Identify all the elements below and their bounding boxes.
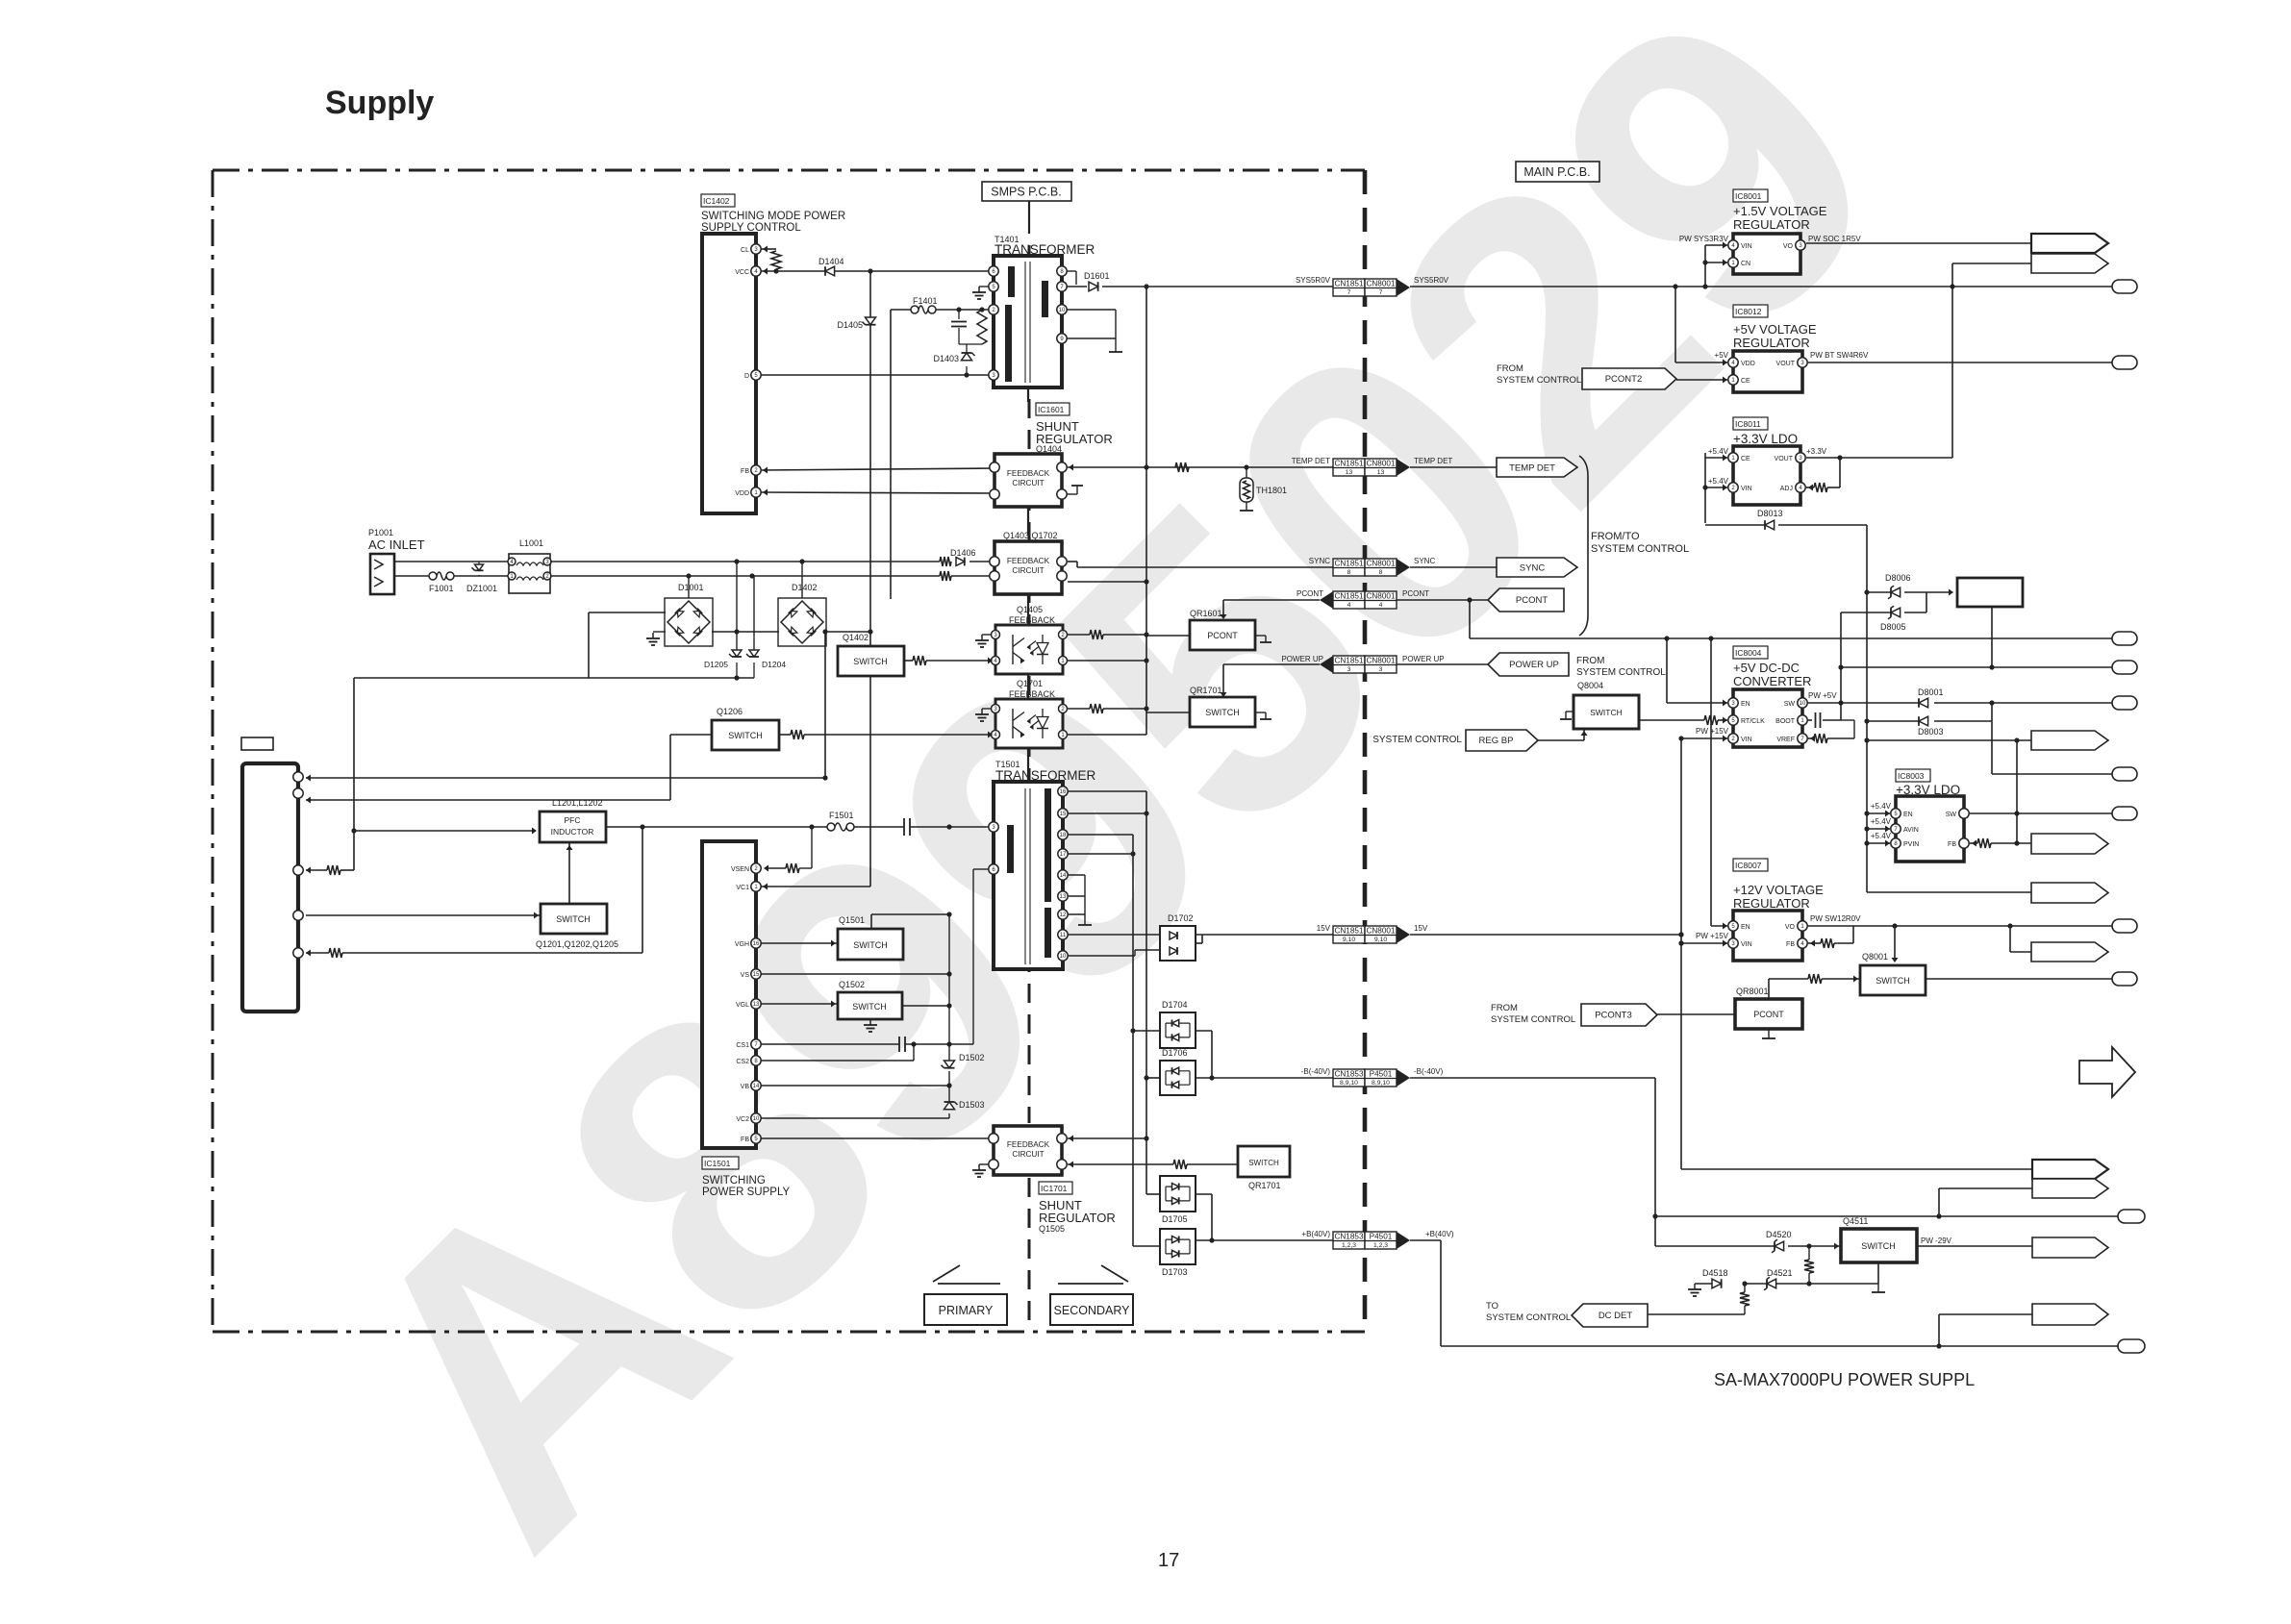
wire EN from pcont rail	[1710, 638, 1712, 926]
wire pin6 rail	[972, 869, 974, 1044]
svg-text:SA-MAX7000PU POWER SUPPL: SA-MAX7000PU POWER SUPPL	[1714, 1370, 1975, 1389]
svg-text:AC INLET: AC INLET	[368, 537, 425, 552]
svg-text:CN1851: CN1851	[1334, 927, 1363, 936]
svg-text:CN8001: CN8001	[1366, 927, 1395, 936]
ground below Q1502	[869, 1019, 871, 1025]
svg-text:CN1851: CN1851	[1334, 657, 1363, 665]
wire VGH	[761, 942, 838, 944]
pin FB 2 of IC1402	[751, 465, 761, 475]
pill connector SW	[2112, 807, 2137, 820]
svg-text:Supply: Supply	[325, 85, 434, 121]
svg-text:PW SOC 1R5V: PW SOC 1R5V	[1808, 235, 1861, 243]
svg-text:8,9,10: 8,9,10	[1372, 1080, 1390, 1087]
pin EN 5 of IC8007	[1728, 921, 1738, 931]
wire pin16	[1068, 790, 1146, 792]
svg-text:REG BP: REG BP	[1479, 736, 1514, 746]
svg-text:D8006: D8006	[1885, 573, 1911, 583]
svg-text:-B(-40V): -B(-40V)	[1414, 1067, 1444, 1076]
pentagon tag bottom right	[1939, 1313, 2032, 1315]
pin CE 1 of IC8012	[1728, 375, 1738, 385]
svg-text:POWER SUPPLY: POWER SUPPLY	[702, 1187, 790, 1198]
pin AVIN 7 of IC8003	[1891, 824, 1901, 834]
svg-text:7: 7	[1347, 289, 1351, 296]
svg-text:CN8001: CN8001	[1366, 657, 1395, 665]
svg-text:TEMP DET: TEMP DET	[1414, 457, 1452, 465]
switch QR1701 secondary	[1238, 1146, 1290, 1177]
wire +5.4V rail to IC8003	[1867, 812, 1890, 814]
IC IC1601 shunt regulator	[1036, 403, 1070, 415]
feedback circuit block IC1701	[994, 1126, 1062, 1175]
svg-text:CE: CE	[1741, 456, 1750, 462]
svg-text:FEEDBACK: FEEDBACK	[1007, 469, 1050, 478]
svg-text:SWITCH: SWITCH	[1876, 976, 1910, 986]
IC IC1402 switching mode power supply control	[701, 194, 735, 207]
wire left pin4 to switch	[306, 914, 541, 916]
resistor at CL pin	[761, 248, 776, 250]
svg-text:10: 10	[1059, 308, 1066, 313]
svg-text:MAIN P.C.B.: MAIN P.C.B.	[1523, 165, 1590, 179]
wire AC top	[394, 561, 509, 562]
bus secondary rectifier B	[1132, 835, 1134, 1246]
pin CL 3 of IC1402	[751, 244, 761, 254]
svg-text:VDD: VDD	[1741, 361, 1755, 367]
svg-text:D1405: D1405	[837, 320, 863, 330]
IC IC8003 +3.3V LDO	[1896, 769, 1930, 782]
wire Q4511 out	[1917, 1245, 2032, 1247]
svg-text:F1401: F1401	[913, 296, 938, 306]
zener rail right of IC1501	[948, 914, 950, 1062]
svg-text:SWITCHING MODE POWER: SWITCHING MODE POWER	[701, 211, 845, 222]
chevron pair connectors	[1681, 1168, 2032, 1170]
pin 2 of left connector	[293, 788, 303, 798]
pin 12 of T1501	[1058, 910, 1068, 919]
tag SYNC	[1497, 558, 1577, 577]
svg-text:VO: VO	[1785, 924, 1796, 931]
svg-text:FB: FB	[741, 468, 749, 475]
svg-text:14: 14	[1060, 873, 1067, 879]
ground at D1001	[653, 631, 666, 633]
svg-text:PFC: PFC	[565, 815, 581, 825]
resistor ADJ	[1806, 487, 1814, 488]
svg-text:FROM: FROM	[1497, 363, 1523, 374]
pin VOUT 3 of IC8012	[1798, 358, 1807, 367]
primary marker	[933, 1265, 960, 1282]
wire bridge out down rail	[824, 632, 826, 778]
wire FB	[761, 468, 994, 470]
svg-text:CL: CL	[741, 247, 749, 254]
pin 3 of T1501	[989, 822, 998, 832]
pin ADJ 4 of IC8011	[1796, 483, 1805, 492]
svg-text:9,10: 9,10	[1374, 937, 1387, 943]
block unlabeled top right	[1957, 578, 2023, 607]
svg-text:+B(40V): +B(40V)	[1301, 1230, 1330, 1238]
svg-text:CE: CE	[1741, 378, 1750, 385]
pin 2 of T1401	[989, 305, 998, 314]
svg-text:QR1601: QR1601	[1190, 609, 1222, 618]
svg-text:Q1402: Q1402	[843, 633, 869, 642]
node VCC junction	[868, 268, 872, 273]
svg-text:10: 10	[1060, 954, 1067, 960]
svg-text:D4521: D4521	[1767, 1268, 1793, 1278]
svg-text:12: 12	[1060, 912, 1067, 918]
resistor top AC line	[940, 557, 951, 566]
wire Q1402 down rail	[869, 676, 871, 887]
svg-text:RT/CLK: RT/CLK	[1741, 718, 1765, 725]
svg-text:Q1403,Q1702: Q1403,Q1702	[1003, 531, 1058, 540]
wire AC bottom	[394, 575, 429, 577]
svg-text:P4501: P4501	[1370, 1233, 1393, 1241]
svg-text:FB: FB	[741, 1137, 749, 1143]
svg-text:VREF: VREF	[1776, 737, 1795, 743]
svg-text:SYS5R0V: SYS5R0V	[1414, 276, 1449, 285]
svg-text:REGULATOR: REGULATOR	[1733, 336, 1810, 350]
wire pin18	[1068, 834, 1133, 836]
svg-text:Q1405: Q1405	[1017, 605, 1043, 614]
pin CE 1 of IC8011	[1728, 453, 1738, 462]
wire Q1403 lower out	[1068, 581, 1146, 583]
svg-text:D8003: D8003	[1918, 727, 1944, 737]
pin VIN 2 of IC8011	[1728, 483, 1738, 492]
resistor bottom AC line	[940, 571, 951, 581]
wire switch to pfc arrow	[568, 843, 570, 904]
wire Q1405 pin1	[1068, 660, 1146, 662]
svg-text:9,10: 9,10	[1343, 937, 1355, 943]
pin PVIN 8 of IC8003	[1891, 838, 1901, 848]
dash-dot border bottom	[213, 1331, 1365, 1334]
svg-text:PRIMARY: PRIMARY	[939, 1304, 994, 1317]
pentagon tag mid right	[1867, 739, 2031, 741]
wire riser to pfc line	[353, 678, 355, 870]
wire PCONT left	[1223, 599, 1320, 601]
wire POWER UP right	[1397, 663, 1488, 665]
svg-text:IC8004: IC8004	[1735, 648, 1762, 658]
pin VC1 1 of IC1501	[751, 882, 761, 891]
svg-text:CS2: CS2	[736, 1059, 749, 1065]
small rect label	[241, 737, 273, 750]
svg-text:P1001: P1001	[368, 528, 393, 537]
svg-text:PCONT: PCONT	[1516, 595, 1548, 606]
svg-text:PW -29V: PW -29V	[1921, 1237, 1952, 1245]
switch Q1201,Q1202,Q1205	[541, 904, 607, 934]
capacitor near F1401	[958, 310, 960, 319]
pin VGL 13 of IC1501	[751, 999, 761, 1009]
wire IC1701 out1	[1068, 1137, 1146, 1139]
pill connector row1	[2112, 632, 2137, 645]
dash-dot border top	[213, 169, 1365, 172]
pin VB 14 of IC1501	[751, 1081, 761, 1090]
ground at Q1405	[982, 634, 991, 636]
svg-text:REGULATOR: REGULATOR	[1733, 896, 1810, 911]
svg-text:VDD: VDD	[735, 490, 749, 497]
svg-text:1,2,3: 1,2,3	[1342, 1242, 1356, 1249]
svg-text:IC1701: IC1701	[1041, 1184, 1068, 1193]
svg-text:IC1402: IC1402	[703, 196, 730, 206]
wire CS1 capacitor	[761, 1043, 899, 1045]
wire bridge taps	[736, 562, 738, 650]
svg-text:F1501: F1501	[829, 811, 854, 820]
svg-text:EN: EN	[1741, 701, 1750, 708]
wire IC1701 out2 resistor	[1068, 1163, 1173, 1165]
svg-text:CN1851: CN1851	[1334, 592, 1363, 601]
svg-text:SYSTEM CONTROL: SYSTEM CONTROL	[1497, 375, 1581, 386]
wire to Q8001	[1894, 926, 1896, 962]
wire pin11 to D1702	[1068, 934, 1160, 936]
svg-text:8: 8	[1379, 569, 1383, 576]
svg-text:POWER UP: POWER UP	[1402, 655, 1445, 663]
svg-text:FROM/TO: FROM/TO	[1591, 531, 1640, 542]
pin 13 of T1501	[1058, 891, 1068, 901]
svg-text:+3.3V LDO: +3.3V LDO	[1733, 432, 1798, 446]
pin CN 1 of IC8001	[1728, 258, 1738, 267]
svg-text:CIRCUIT: CIRCUIT	[1012, 1150, 1044, 1159]
wire Q8001 out	[1926, 978, 2112, 980]
svg-text:1,2,3: 1,2,3	[1373, 1242, 1388, 1249]
svg-text:+1.5V VOLTAGE: +1.5V VOLTAGE	[1733, 204, 1827, 218]
svg-text:IC1501: IC1501	[704, 1159, 731, 1168]
wire pfc input tap	[351, 828, 356, 833]
svg-text:17: 17	[1060, 852, 1067, 858]
svg-text:3: 3	[1347, 666, 1351, 673]
ground at T1401 pin 5	[979, 286, 989, 287]
wire POWER UP left	[1223, 663, 1320, 665]
svg-text:CS1: CS1	[736, 1042, 749, 1049]
wire D pin to transformer	[761, 374, 994, 376]
svg-text:SW: SW	[1946, 812, 1957, 818]
svg-text:Q8001: Q8001	[1862, 952, 1888, 962]
feedback circuit block Q1404	[994, 454, 1062, 507]
wire pin17	[1068, 853, 1133, 855]
svg-text:CN1851: CN1851	[1334, 280, 1363, 288]
svg-text:VO: VO	[1783, 243, 1794, 250]
svg-text:+B(40V): +B(40V)	[1425, 1230, 1454, 1238]
svg-text:L1001: L1001	[519, 538, 543, 548]
pin 6 of T1501	[989, 864, 998, 874]
pin VCC 4 of IC1402	[751, 266, 761, 276]
svg-text:+5.4V: +5.4V	[1708, 447, 1729, 456]
pin CS2 8 of IC1501	[751, 1056, 761, 1065]
pill connector PW BT	[2112, 356, 2137, 369]
big arrow connector	[2079, 1047, 2135, 1097]
svg-text:TEMP DET: TEMP DET	[1509, 463, 1555, 474]
wire PCONT right	[1397, 599, 1488, 601]
svg-text:D1702: D1702	[1168, 913, 1194, 923]
svg-text:+12V VOLTAGE: +12V VOLTAGE	[1733, 883, 1824, 897]
wire left pin3 resistor	[306, 869, 327, 871]
resistor DC DET	[1740, 1292, 1750, 1306]
wire vertical pentagon rail	[2016, 740, 2018, 843]
svg-text:SWITCH: SWITCH	[853, 657, 888, 666]
ground below QR8001	[1768, 1029, 1770, 1038]
wire Q1403 to Q1405 leader	[1027, 594, 1029, 625]
svg-text:8,9,10: 8,9,10	[1340, 1080, 1358, 1087]
svg-text:+5V: +5V	[1715, 351, 1729, 360]
diode block D1703	[1160, 1229, 1196, 1264]
pill connector PW +5V	[2112, 696, 2137, 710]
svg-text:SECONDARY: SECONDARY	[1054, 1304, 1131, 1317]
wire VIN	[1681, 942, 1727, 944]
wire cap/res bottom	[959, 343, 982, 345]
wire Q1405 pin2 resistor	[1068, 634, 1090, 636]
pin 9 of T1401	[1057, 334, 1067, 343]
svg-text:+5.4V: +5.4V	[1871, 817, 1892, 826]
pentagon tag FB	[2031, 834, 2108, 854]
pin 1 of left connector	[293, 772, 303, 782]
dashed primary/secondary boundary	[1028, 245, 1031, 1123]
pill connector y1265	[2118, 1210, 2145, 1223]
wire left pin1	[306, 777, 825, 779]
svg-text:P4501: P4501	[1370, 1070, 1393, 1079]
svg-text:SYNC: SYNC	[1414, 557, 1435, 565]
svg-text:SWITCH: SWITCH	[1590, 708, 1623, 717]
svg-text:CN1851: CN1851	[1334, 560, 1363, 568]
svg-text:CN8001: CN8001	[1366, 560, 1395, 568]
svg-text:FROM: FROM	[1576, 656, 1604, 666]
wire Q1405 to Q1701 leader	[1027, 674, 1029, 699]
pin SW 10 of IC8004	[1798, 698, 1807, 708]
wire pill row y1265	[1655, 1215, 2118, 1217]
svg-text:CONVERTER: CONVERTER	[1733, 674, 1811, 688]
pin BOOT 1 of IC8004	[1798, 715, 1807, 725]
svg-text:PCONT: PCONT	[1297, 589, 1323, 598]
svg-text:CN8001: CN8001	[1366, 280, 1395, 288]
pin D 5 of IC1402	[751, 370, 761, 380]
pin 11 of T1501	[1058, 930, 1068, 939]
resistor FB IC8007	[1808, 942, 1821, 944]
wire CS2	[761, 1060, 914, 1062]
svg-text:PW +15V: PW +15V	[1696, 932, 1729, 940]
svg-text:VB: VB	[741, 1084, 750, 1090]
pin 10 of T1401	[1057, 305, 1067, 314]
svg-text:SWITCH: SWITCH	[556, 914, 591, 924]
svg-text:CIRCUIT: CIRCUIT	[1012, 566, 1044, 575]
svg-text:15: 15	[1060, 812, 1067, 817]
svg-text:SW: SW	[1784, 701, 1796, 708]
pill connector PW SW12R0V	[2112, 919, 2137, 933]
pill connector SYS5R0V	[2112, 280, 2137, 293]
wire VCC	[761, 270, 994, 272]
fuse F1001	[429, 572, 437, 580]
svg-text:TH1801: TH1801	[1256, 486, 1287, 495]
wire pin15	[1068, 812, 1146, 814]
svg-text:INDUCTOR: INDUCTOR	[551, 827, 594, 837]
svg-text:SYNC: SYNC	[1520, 563, 1546, 574]
wire VDD	[761, 492, 994, 493]
wire -B(-40V)	[1212, 1077, 1333, 1079]
svg-text:15V: 15V	[1414, 924, 1428, 933]
svg-text:F1001: F1001	[429, 584, 454, 593]
svg-text:PCONT: PCONT	[1207, 631, 1238, 640]
pin FB 4 of IC8007	[1798, 938, 1807, 948]
svg-text:REGULATOR: REGULATOR	[1039, 1211, 1116, 1225]
wire VS	[761, 973, 949, 975]
svg-text:VC2: VC2	[736, 1116, 749, 1123]
pin VIN 4 of IC8001	[1728, 240, 1738, 250]
wire pin10 to D1702	[1068, 955, 1135, 957]
wire bridge out right	[823, 631, 870, 633]
svg-text:D1204: D1204	[762, 660, 786, 669]
wire 15V out	[1196, 942, 1202, 944]
IC IC1501 switching power supply	[702, 841, 756, 1148]
pin VC2 10 of IC1501	[751, 1113, 761, 1123]
svg-text:VSEN: VSEN	[731, 866, 749, 873]
resistor Q1402 out	[904, 660, 913, 662]
svg-text:POWER UP: POWER UP	[1509, 660, 1559, 670]
svg-text:VIN: VIN	[1741, 243, 1752, 250]
wire bridge mid	[712, 631, 779, 633]
svg-text:+5.4V: +5.4V	[1708, 477, 1729, 486]
pill connector row2	[1841, 666, 2112, 668]
wire EN	[1666, 638, 1668, 703]
bus secondary rectifier A	[1145, 791, 1147, 1194]
svg-text:PCONT: PCONT	[1753, 1010, 1784, 1019]
svg-text:D1001: D1001	[678, 583, 704, 592]
svg-text:D1502: D1502	[959, 1053, 985, 1062]
svg-text:Q1701: Q1701	[1017, 679, 1043, 688]
svg-text:Q1206: Q1206	[717, 707, 743, 716]
wire pfc out	[606, 826, 827, 828]
dash-dot border left	[212, 170, 214, 1332]
svg-text:+5.4V: +5.4V	[1871, 832, 1892, 840]
tag POWER UP left	[1488, 653, 1569, 676]
svg-text:PW +5V: PW +5V	[1808, 691, 1837, 700]
svg-text:13: 13	[1377, 469, 1385, 476]
svg-text:D8001: D8001	[1918, 687, 1944, 697]
svg-text:Q4511: Q4511	[1843, 1216, 1868, 1226]
svg-text:VGH: VGH	[735, 941, 749, 948]
wire VGL	[761, 1003, 838, 1005]
svg-text:8: 8	[1347, 569, 1351, 576]
svg-text:PCONT: PCONT	[1402, 589, 1429, 598]
pin 6 of T1401	[989, 266, 998, 276]
svg-text:VCC: VCC	[735, 269, 749, 276]
svg-text:13: 13	[1060, 894, 1067, 900]
resistor VREF	[1808, 737, 1814, 739]
diode block D1704	[1160, 1012, 1196, 1048]
wire FB to shunt	[761, 1137, 994, 1139]
pin 14 of T1501	[1058, 870, 1068, 880]
svg-text:Q1502: Q1502	[839, 980, 865, 989]
svg-text:SYNC: SYNC	[1309, 557, 1330, 565]
svg-text:PVIN: PVIN	[1903, 841, 1919, 848]
svg-text:PW SW12R0V: PW SW12R0V	[1810, 914, 1861, 923]
svg-text:CN8001: CN8001	[1366, 460, 1395, 468]
wire riser x668	[642, 827, 643, 953]
wire left pin2	[306, 799, 670, 801]
svg-text:Q1505: Q1505	[1039, 1224, 1065, 1234]
svg-text:10: 10	[753, 1116, 760, 1122]
thermistor TH1801	[1246, 467, 1247, 478]
ground at IC1701 block	[979, 1163, 989, 1165]
svg-text:D1205: D1205	[704, 660, 728, 669]
pentagon tag row below	[1867, 891, 2031, 893]
pin VS 15 of IC1501	[751, 969, 761, 979]
svg-text:17: 17	[1158, 1550, 1179, 1571]
wire T1401 leader	[1027, 387, 1029, 402]
wire RT/CLK resistor	[1639, 719, 1704, 721]
wire Q1701 pin2 resistor	[1068, 708, 1090, 710]
svg-text:+5.4V: +5.4V	[1871, 802, 1892, 811]
svg-text:BOOT: BOOT	[1775, 718, 1796, 725]
wire SW out	[1970, 812, 2112, 814]
wire vertical VCC rail	[869, 271, 871, 646]
tag PCONT left	[1488, 588, 1564, 612]
wire TEMP DET	[1068, 466, 1333, 468]
pin SW of IC8003	[1959, 809, 1969, 818]
svg-text:SYS5R0V: SYS5R0V	[1296, 276, 1331, 285]
pill connector row3	[1991, 721, 1993, 774]
svg-text:SWITCH: SWITCH	[728, 731, 763, 740]
svg-text:IC8003: IC8003	[1898, 771, 1925, 781]
